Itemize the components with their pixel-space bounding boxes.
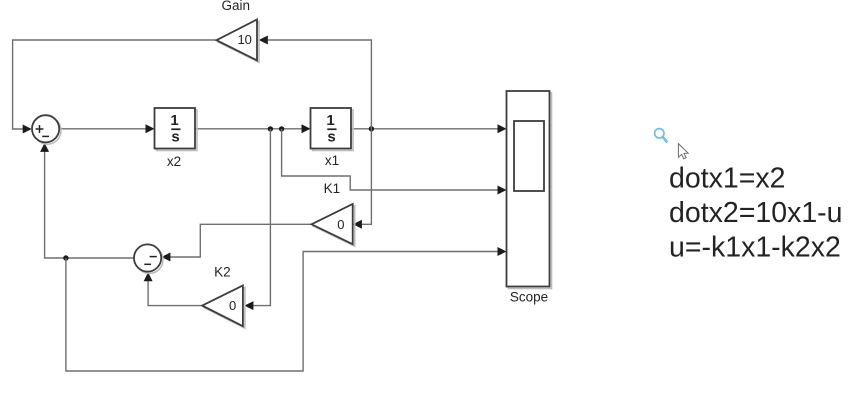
wire: Gain output feedback to Sum1 plus input <box>13 40 217 134</box>
svg-text:1: 1 <box>326 112 334 129</box>
wire: x1 signal tap down to gain K1 input <box>353 129 372 229</box>
svg-text:s: s <box>171 129 179 146</box>
svg-text:Gain: Gain <box>222 0 251 13</box>
wire: integrator x2 output to integrator x1 input <box>195 124 311 133</box>
icon: mouse cursor arrow <box>678 144 688 159</box>
svg-text:1: 1 <box>170 112 178 129</box>
svg-text:x2: x2 <box>167 154 181 169</box>
scope block Scope <box>507 91 552 289</box>
svg-text:10: 10 <box>237 32 251 47</box>
gain block K2 (value 0) <box>202 286 245 329</box>
svg-text:0: 0 <box>229 298 236 313</box>
svg-text:Scope: Scope <box>510 290 548 305</box>
sum block Sum2 (-,-) <box>134 244 163 273</box>
svg-text:x1: x1 <box>325 153 339 168</box>
svg-text:dotx1=x2: dotx1=x2 <box>669 162 785 194</box>
svg-text:u=-k1x1-k2x2: u=-k1x1-k2x2 <box>669 231 841 263</box>
svg-text:dotx2=10x1-u: dotx2=10x1-u <box>669 197 843 229</box>
node: junction dot on u signal <box>63 255 68 260</box>
wire: x1 signal tap up to Gain input <box>259 36 372 129</box>
wire: x2 signal down to gain K2 input <box>244 129 270 310</box>
gain block Gain (value 10) <box>217 20 260 63</box>
svg-text:s: s <box>327 129 335 146</box>
icon: blue magnifier <box>655 129 668 143</box>
integrator x1 <box>311 108 354 151</box>
sum block Sum1 (+,-) <box>32 115 61 144</box>
wire: integrator x1 output to Scope input 1 <box>352 124 507 133</box>
svg-text:K1: K1 <box>324 181 341 196</box>
wire: Sum1 output to integrator x2 input <box>59 124 154 133</box>
wire: u signal to Scope input 3 <box>66 247 507 371</box>
wire: gain K1 output to Sum2 minus (east) input <box>161 224 311 261</box>
wire: gain K2 output to Sum2 minus (south) input <box>144 272 203 305</box>
gain block K1 (value 0) <box>312 204 355 246</box>
node: junction dot on x1 signal <box>369 126 374 131</box>
integrator x2 <box>155 108 198 151</box>
svg-text:K2: K2 <box>214 265 231 280</box>
svg-text:0: 0 <box>337 217 344 232</box>
wire: x2 signal to Scope input 2 <box>282 129 507 195</box>
wire: Sum2 output (u) to Sum1 minus (south) input <box>40 143 134 258</box>
node: junction dot on x2 signal (to Scope input 2) <box>279 126 284 131</box>
node: junction dot on x2 signal (to K2) <box>268 126 273 131</box>
